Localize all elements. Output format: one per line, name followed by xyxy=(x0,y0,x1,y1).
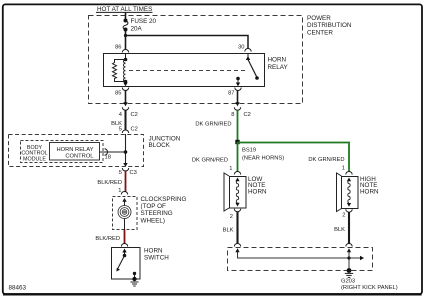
connector C2 pin 8 xyxy=(231,102,251,118)
svg-text:CONTROL: CONTROL xyxy=(65,154,93,160)
ground wire inside box from high horn xyxy=(347,248,351,270)
wire BLK C2-4 to C2-5 xyxy=(111,110,125,130)
horn relay control box xyxy=(50,143,100,161)
svg-text:C2: C2 xyxy=(131,127,138,133)
svg-text:1: 1 xyxy=(342,166,345,172)
svg-text:SWITCH: SWITCH xyxy=(144,254,169,261)
low note horn pin 2 xyxy=(230,209,241,220)
relay switch contact xyxy=(236,54,259,83)
svg-text:C3: C3 xyxy=(130,170,137,176)
svg-text:C2: C2 xyxy=(244,112,251,118)
splice BS19 xyxy=(235,140,284,162)
svg-text:DK GRN/RED: DK GRN/RED xyxy=(308,157,344,163)
svg-text:POWER: POWER xyxy=(307,15,331,22)
pin 86 xyxy=(115,45,129,53)
wire BLK/RED junction block to clockspring xyxy=(97,171,125,192)
fuse F20 20A xyxy=(123,18,156,33)
svg-text:BLK/RED: BLK/RED xyxy=(97,180,122,186)
svg-text:RELAY: RELAY xyxy=(268,64,289,71)
high note horn pin 1 xyxy=(342,166,352,175)
wire BCM pin 18 to junction xyxy=(100,151,126,153)
wire pin 87 to connector C2-8 xyxy=(237,91,239,103)
horn switch box xyxy=(112,248,170,280)
connector C3 pin 5 xyxy=(119,163,137,176)
svg-text:2: 2 xyxy=(230,214,233,220)
svg-text:BLOCK: BLOCK xyxy=(149,142,171,149)
svg-text:DISTRIBUTION: DISTRIBUTION xyxy=(307,22,352,29)
wire DK GRN/RED C2-8 to splice xyxy=(195,110,237,142)
wire BLK high horn to ground box xyxy=(334,212,349,243)
wire DK GRN/RED splice to high note horn xyxy=(238,143,350,172)
svg-text:C2: C2 xyxy=(131,112,138,118)
svg-text:WHEEL): WHEEL) xyxy=(141,217,166,224)
svg-text:87: 87 xyxy=(228,91,234,97)
svg-text:BLK: BLK xyxy=(223,228,234,234)
pin 85 xyxy=(115,83,129,97)
svg-text:BLK: BLK xyxy=(334,227,345,233)
low horn ground entry connector xyxy=(234,244,240,247)
svg-text:DK GRN/RED: DK GRN/RED xyxy=(192,158,228,164)
svg-text:HORN: HORN xyxy=(360,188,379,195)
svg-text:CLOCKSPRING: CLOCKSPRING xyxy=(141,196,187,203)
svg-text:HORN: HORN xyxy=(268,57,287,64)
wire fuse to relay pin 86 xyxy=(125,30,127,50)
pin 18 xyxy=(105,149,111,161)
relay coil parallel resistor xyxy=(113,60,126,82)
ground at horn switch xyxy=(131,277,139,286)
wire inside junction block xyxy=(125,134,127,164)
svg-text:HORN RELAY: HORN RELAY xyxy=(57,147,94,153)
wire BLK/RED clockspring to horn switch xyxy=(95,230,124,244)
low note horn pin 1 xyxy=(229,166,240,175)
high note horn pin 2 xyxy=(342,209,352,218)
node junction of BCM control xyxy=(124,150,128,154)
horn switch connector xyxy=(121,244,127,247)
svg-text:FUSE 20: FUSE 20 xyxy=(131,18,157,25)
wire DK GRN/RED splice to low note horn xyxy=(192,142,238,172)
pin 87 xyxy=(228,83,241,97)
svg-text:85: 85 xyxy=(115,91,121,97)
ground wire inside box from low horn xyxy=(235,248,349,258)
ground G203 xyxy=(341,268,398,291)
pin 30 xyxy=(238,45,251,52)
svg-text:88463: 88463 xyxy=(9,285,27,292)
svg-text:(NEAR HORNS): (NEAR HORNS) xyxy=(242,156,284,162)
svg-text:8: 8 xyxy=(231,112,234,118)
wire branch to relay pin 30 xyxy=(124,34,248,49)
node ground junction and continuation arrow xyxy=(347,256,364,260)
ground distribution box xyxy=(228,248,373,271)
svg-text:30: 30 xyxy=(238,45,244,51)
svg-text:STEERING: STEERING xyxy=(141,210,173,217)
svg-text:(RIGHT KICK PANEL): (RIGHT KICK PANEL) xyxy=(341,285,398,291)
relay actuation dashed link xyxy=(129,70,245,72)
horn switch contact xyxy=(116,249,136,280)
svg-text:5: 5 xyxy=(119,127,122,133)
svg-text:5: 5 xyxy=(119,170,122,176)
svg-text:1: 1 xyxy=(229,166,232,172)
relay U1 horn relay box xyxy=(104,54,289,87)
wire pin 85 to connector C2-4 xyxy=(125,91,127,103)
svg-text:BLK/RED: BLK/RED xyxy=(95,236,120,242)
junction block box xyxy=(9,135,181,167)
svg-text:2: 2 xyxy=(342,213,345,219)
high horn ground entry connector xyxy=(346,243,352,246)
svg-text:HORN: HORN xyxy=(248,188,267,195)
svg-text:86: 86 xyxy=(115,45,121,51)
svg-text:BS19: BS19 xyxy=(242,148,256,154)
svg-text:18: 18 xyxy=(105,155,111,161)
svg-text:DK GRN/RED: DK GRN/RED xyxy=(195,122,231,128)
svg-text:MODULE: MODULE xyxy=(23,156,46,162)
clockspring spiral xyxy=(118,198,131,230)
svg-text:20A: 20A xyxy=(131,26,143,33)
high note horn xyxy=(337,173,379,212)
connector C2 pin 5 xyxy=(119,127,138,133)
svg-text:CENTER: CENTER xyxy=(307,29,333,36)
node HOT AT ALL TIMES xyxy=(96,6,153,13)
wire feed from hot bus to fuse xyxy=(125,12,127,20)
connector C2 pin 4 xyxy=(119,102,138,118)
body control module box xyxy=(21,141,104,163)
low note horn xyxy=(224,173,267,211)
svg-text:(TOP OF: (TOP OF xyxy=(141,203,166,210)
svg-text:G203: G203 xyxy=(341,279,355,285)
clockspring pin 1 xyxy=(118,188,127,195)
power distribution center box xyxy=(89,15,352,104)
relay coil xyxy=(124,54,128,84)
wire BLK low horn to ground box xyxy=(223,212,238,244)
clockspring box xyxy=(113,196,187,230)
